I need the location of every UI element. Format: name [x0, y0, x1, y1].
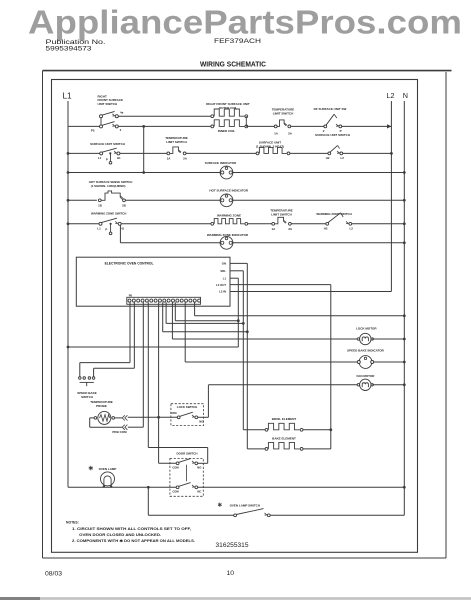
junction L1 row5 [67, 222, 70, 225]
switch oven lamp switch [218, 503, 222, 507]
wire strip to ON pin vertical [162, 302, 164, 332]
junction broil L2 OUT [329, 428, 332, 431]
junction on SRL pin vertical [242, 322, 245, 325]
wire element to limit switch row5 [248, 223, 274, 225]
junction lock feed [157, 416, 160, 419]
wire probe right lead [115, 417, 122, 419]
svg-text:OVEN LAMP: OVEN LAMP [99, 467, 117, 471]
wire lock NO to fan motor row [198, 416, 209, 418]
svg-text:L2: L2 [387, 91, 395, 100]
wire strip to probe bottom [142, 302, 144, 427]
svg-text:P8: P8 [129, 294, 133, 298]
switch door switch upper [176, 462, 179, 465]
svg-text:1. CIRCUIT SHOWN WITH ALL CON: 1. CIRCUIT SHOWN WITH ALL CONTROLS SET T… [72, 527, 191, 531]
svg-text:L1: L1 [98, 156, 102, 160]
svg-text:NO: NO [197, 466, 201, 470]
svg-text:WARMING ZONE: WARMING ZONE [217, 213, 241, 217]
box door switch [170, 458, 203, 496]
wire strip to lock motor row [171, 302, 173, 339]
junction N oven lamp line [403, 486, 406, 489]
junction L1 feed [67, 346, 70, 349]
wire strip to SRL pin vertical [165, 302, 167, 323]
wire door switch mechanical link [186, 465, 188, 482]
wire switch to L2 bus row2 [343, 152, 392, 154]
op-box electronic oven control U1 [76, 257, 230, 306]
svg-text:OVEN LAMP SWITCH: OVEN LAMP SWITCH [230, 503, 260, 507]
arrow junction at L2 bus [387, 124, 391, 128]
junction N row upper [403, 314, 406, 317]
svg-text:COM: COM [172, 490, 179, 494]
wire strip to speed bake switch B [133, 302, 135, 368]
svg-text:LOCK MOTOR: LOCK MOTOR [356, 327, 377, 331]
wire strip to door NO net [147, 302, 149, 447]
svg-text:P: P [106, 157, 108, 161]
switch lock switch [177, 416, 180, 419]
svg-text:L2: L2 [350, 226, 354, 230]
wire L1 to surface indicator [68, 172, 221, 174]
wire L1 bus [67, 101, 69, 487]
wire lamp switch to N drop [270, 514, 404, 516]
svg-text:10: 10 [227, 570, 235, 577]
wire switch to limit switch row2 [120, 152, 168, 154]
wire lock motor to N [372, 338, 404, 340]
svg-text:ELECTRONIC OVEN CONTROL: ELECTRONIC OVEN CONTROL [105, 261, 154, 265]
junction L2 row2 [390, 152, 393, 155]
wire lamp switch line left [148, 514, 233, 516]
wire bake to L2 OUT vertical [303, 448, 331, 450]
wire row2 bottom pole to inner coil [118, 125, 212, 127]
wire L1 to sense switch [68, 199, 97, 201]
svg-text:5995394573: 5995394573 [46, 47, 93, 53]
svg-text:Publication No.: Publication No. [46, 39, 106, 46]
wire probe left lead [90, 417, 94, 419]
wire sense switch to hot surface indicator [125, 199, 220, 201]
svg-text:SRL: SRL [220, 269, 226, 273]
junction N row6 [403, 241, 406, 244]
svg-text:OVEN DOOR CLOSED AND UNLOCKED.: OVEN DOOR CLOSED AND UNLOCKED. [79, 533, 161, 537]
header rule [43, 70, 452, 72]
svg-text:08/03: 08/03 [45, 571, 62, 578]
junction N speed bake indicator [403, 361, 406, 364]
terminal strip P8 [127, 297, 201, 304]
wire broil feed [243, 429, 265, 431]
wire fan motor to N [372, 384, 404, 386]
svg-text:NOTES:: NOTES: [66, 520, 79, 524]
junction L1 row4 [67, 199, 70, 202]
junction row2 to indicator row [142, 125, 145, 128]
svg-text:(1 SHOWN, 3 HEAT): (1 SHOWN, 3 HEAT) [256, 145, 284, 149]
wire limit switch to rf surface unit sw [291, 125, 326, 127]
junction lamp line to lamp switch drop [147, 486, 150, 489]
svg-text:NO: NO [199, 419, 203, 423]
wire drop from row5 to indicator row [119, 225, 121, 243]
svg-text:ON: ON [222, 262, 226, 266]
svg-text:316255315: 316255315 [216, 542, 249, 549]
svg-text:L1: L1 [63, 92, 73, 101]
wire broil to L2 OUT vertical [303, 429, 331, 431]
connector probe bottom [122, 425, 127, 430]
svg-text:COM: COM [170, 411, 177, 415]
svg-text:SPEED BAKE INDICATOR: SPEED BAKE INDICATOR [347, 349, 385, 353]
box lock switch [171, 404, 204, 426]
svg-text:H2: H2 [324, 226, 328, 230]
junction N row4 [403, 199, 406, 202]
wire surface indicator to N [232, 172, 404, 174]
svg-text:1B: 1B [98, 203, 102, 207]
wire strip to N row [194, 302, 196, 316]
wire L2 bus [390, 101, 392, 292]
wire strip to speed bake indicator row [184, 302, 186, 362]
svg-text:WARMING ZONE SWITCH: WARMING ZONE SWITCH [91, 212, 126, 216]
wire link row2-junction down to row3 [143, 126, 145, 172]
junction on L1 pin vertical [237, 319, 240, 322]
switch speed bake switch [79, 377, 82, 380]
wire hot surface indicator to N [232, 199, 404, 201]
svg-text:P: P [105, 228, 107, 232]
wire L2 IN pin [230, 291, 391, 293]
svg-text:L2: L2 [341, 156, 345, 160]
svg-text:L1: L1 [223, 276, 227, 280]
svg-text:NC: NC [197, 490, 201, 494]
svg-text:LIMIT SWITCH: LIMIT SWITCH [273, 111, 294, 115]
wire oven lamp line to N [198, 486, 405, 488]
svg-text:WARMING ZONE SWITCH: WARMING ZONE SWITCH [316, 212, 351, 216]
switch door switch lower [176, 486, 179, 489]
wire L2 OUT pin [230, 284, 331, 286]
wire lamp switch feed drop [147, 487, 149, 515]
wire L1 to surface unit switch [68, 152, 101, 154]
svg-text:PROBE: PROBE [96, 404, 107, 408]
wire indicator row left segment [120, 242, 220, 244]
svg-text:FAN MOTOR: FAN MOTOR [357, 374, 376, 378]
junction L1 row3 [67, 171, 70, 174]
svg-text:LIMIT SWITCH: LIMIT SWITCH [271, 213, 292, 217]
junction N row5 [403, 222, 406, 225]
wire element to surface unit switch right [290, 152, 329, 154]
svg-text:HOT SURFACE INDICATOR: HOT SURFACE INDICATOR [209, 188, 249, 192]
wire L1 corner to oven lamp line [68, 486, 176, 488]
svg-text:UNIT SWITCH: UNIT SWITCH [98, 102, 118, 106]
svg-text:N: N [403, 91, 408, 100]
svg-text:FEF379ACH: FEF379ACH [214, 39, 261, 45]
svg-text:SWITCH: SWITCH [81, 395, 93, 399]
wire row5 to warming zone element [121, 223, 212, 225]
svg-text:L2 OUT: L2 OUT [216, 283, 226, 287]
wire row1 top pole to outer coil [118, 115, 212, 117]
svg-text:WIRING SCHEMATIC: WIRING SCHEMATIC [200, 62, 266, 69]
junction on ON pin vertical [246, 330, 249, 333]
schematic border box [52, 80, 418, 553]
svg-text:BROIL ELEMENT: BROIL ELEMENT [272, 417, 297, 421]
svg-text:H1: H1 [117, 156, 121, 160]
svg-text:COM: COM [172, 466, 179, 470]
wire L1 pin [230, 277, 238, 279]
junction link row3 [142, 171, 145, 174]
wire rf switch to L2 bus [342, 125, 392, 127]
wire strip to speed bake switch A [129, 302, 131, 362]
svg-text:P: P [340, 129, 342, 133]
svg-text:L1: L1 [97, 226, 101, 230]
svg-text:AppliancePartsPros.com: AppliancePartsPros.com [28, 3, 462, 40]
svg-text:2B: 2B [122, 203, 126, 207]
wire strip to door lock net [158, 302, 160, 463]
bottom scan smear [0, 597, 471, 600]
svg-text:RF SURFACE UNIT SW: RF SURFACE UNIT SW [314, 107, 347, 111]
svg-text:SURFACE UNIT SWITCH: SURFACE UNIT SWITCH [315, 133, 350, 137]
wire limit switch to surface unit element [186, 152, 258, 154]
svg-text:H1: H1 [120, 226, 124, 230]
svg-text:L2 IN: L2 IN [219, 290, 226, 294]
wire probe bottom to strip wire [128, 426, 144, 428]
wire switch to N row5 [352, 223, 405, 225]
svg-text:4a: 4a [120, 110, 124, 114]
wire door NO feed [148, 447, 207, 449]
junction N row3 [403, 171, 406, 174]
wire limit switch to warming zone switch right [291, 223, 327, 225]
svg-text:PRB COM: PRB COM [112, 430, 127, 434]
svg-text:DOOR SWITCH: DOOR SWITCH [177, 451, 198, 455]
wire coil output tie [245, 116, 247, 126]
wire SRL pin [230, 270, 243, 272]
wire N bus [403, 101, 405, 487]
wire L1 to warming zone switch [68, 223, 101, 225]
wire door COM1 feed [159, 462, 177, 464]
junction L1 row2 [67, 152, 70, 155]
svg-text:LOCK SWITCH: LOCK SWITCH [177, 405, 197, 409]
wire strip to L1 pin vertical [174, 302, 176, 320]
svg-text:H2: H2 [326, 156, 330, 160]
connector probe top [122, 415, 127, 420]
svg-text:SURFACE INDICATOR: SURFACE INDICATOR [205, 161, 237, 165]
svg-text:LIMIT SWITCH: LIMIT SWITCH [166, 140, 187, 144]
wire L1 feed row to EOC [68, 346, 238, 348]
lamp oven lamp [89, 466, 93, 471]
wire indicator to N row6 [232, 242, 404, 244]
junction N lock motor [403, 338, 406, 341]
svg-text:2. COMPONENTS WITH ✱ DO NOT: 2. COMPONENTS WITH ✱ DO NOT APPEAR ON AL… [72, 539, 195, 543]
svg-text:P2: P2 [91, 129, 95, 133]
wire ON pin [230, 262, 247, 264]
outer frame [42, 71, 44, 558]
wire bake feed [247, 448, 265, 450]
svg-text:BAKE ELEMENT: BAKE ELEMENT [272, 437, 296, 441]
svg-text:SURFACE UNIT SWITCH: SURFACE UNIT SWITCH [90, 142, 125, 146]
svg-text:INNER COIL: INNER COIL [218, 129, 236, 133]
svg-text:(1 SHOWN, 4 REQUIRED): (1 SHOWN, 4 REQUIRED) [91, 184, 126, 188]
junction N fan motor [403, 383, 406, 386]
wire probe top to lock switch [128, 416, 179, 418]
wire speed bake indicator to N [373, 361, 404, 363]
